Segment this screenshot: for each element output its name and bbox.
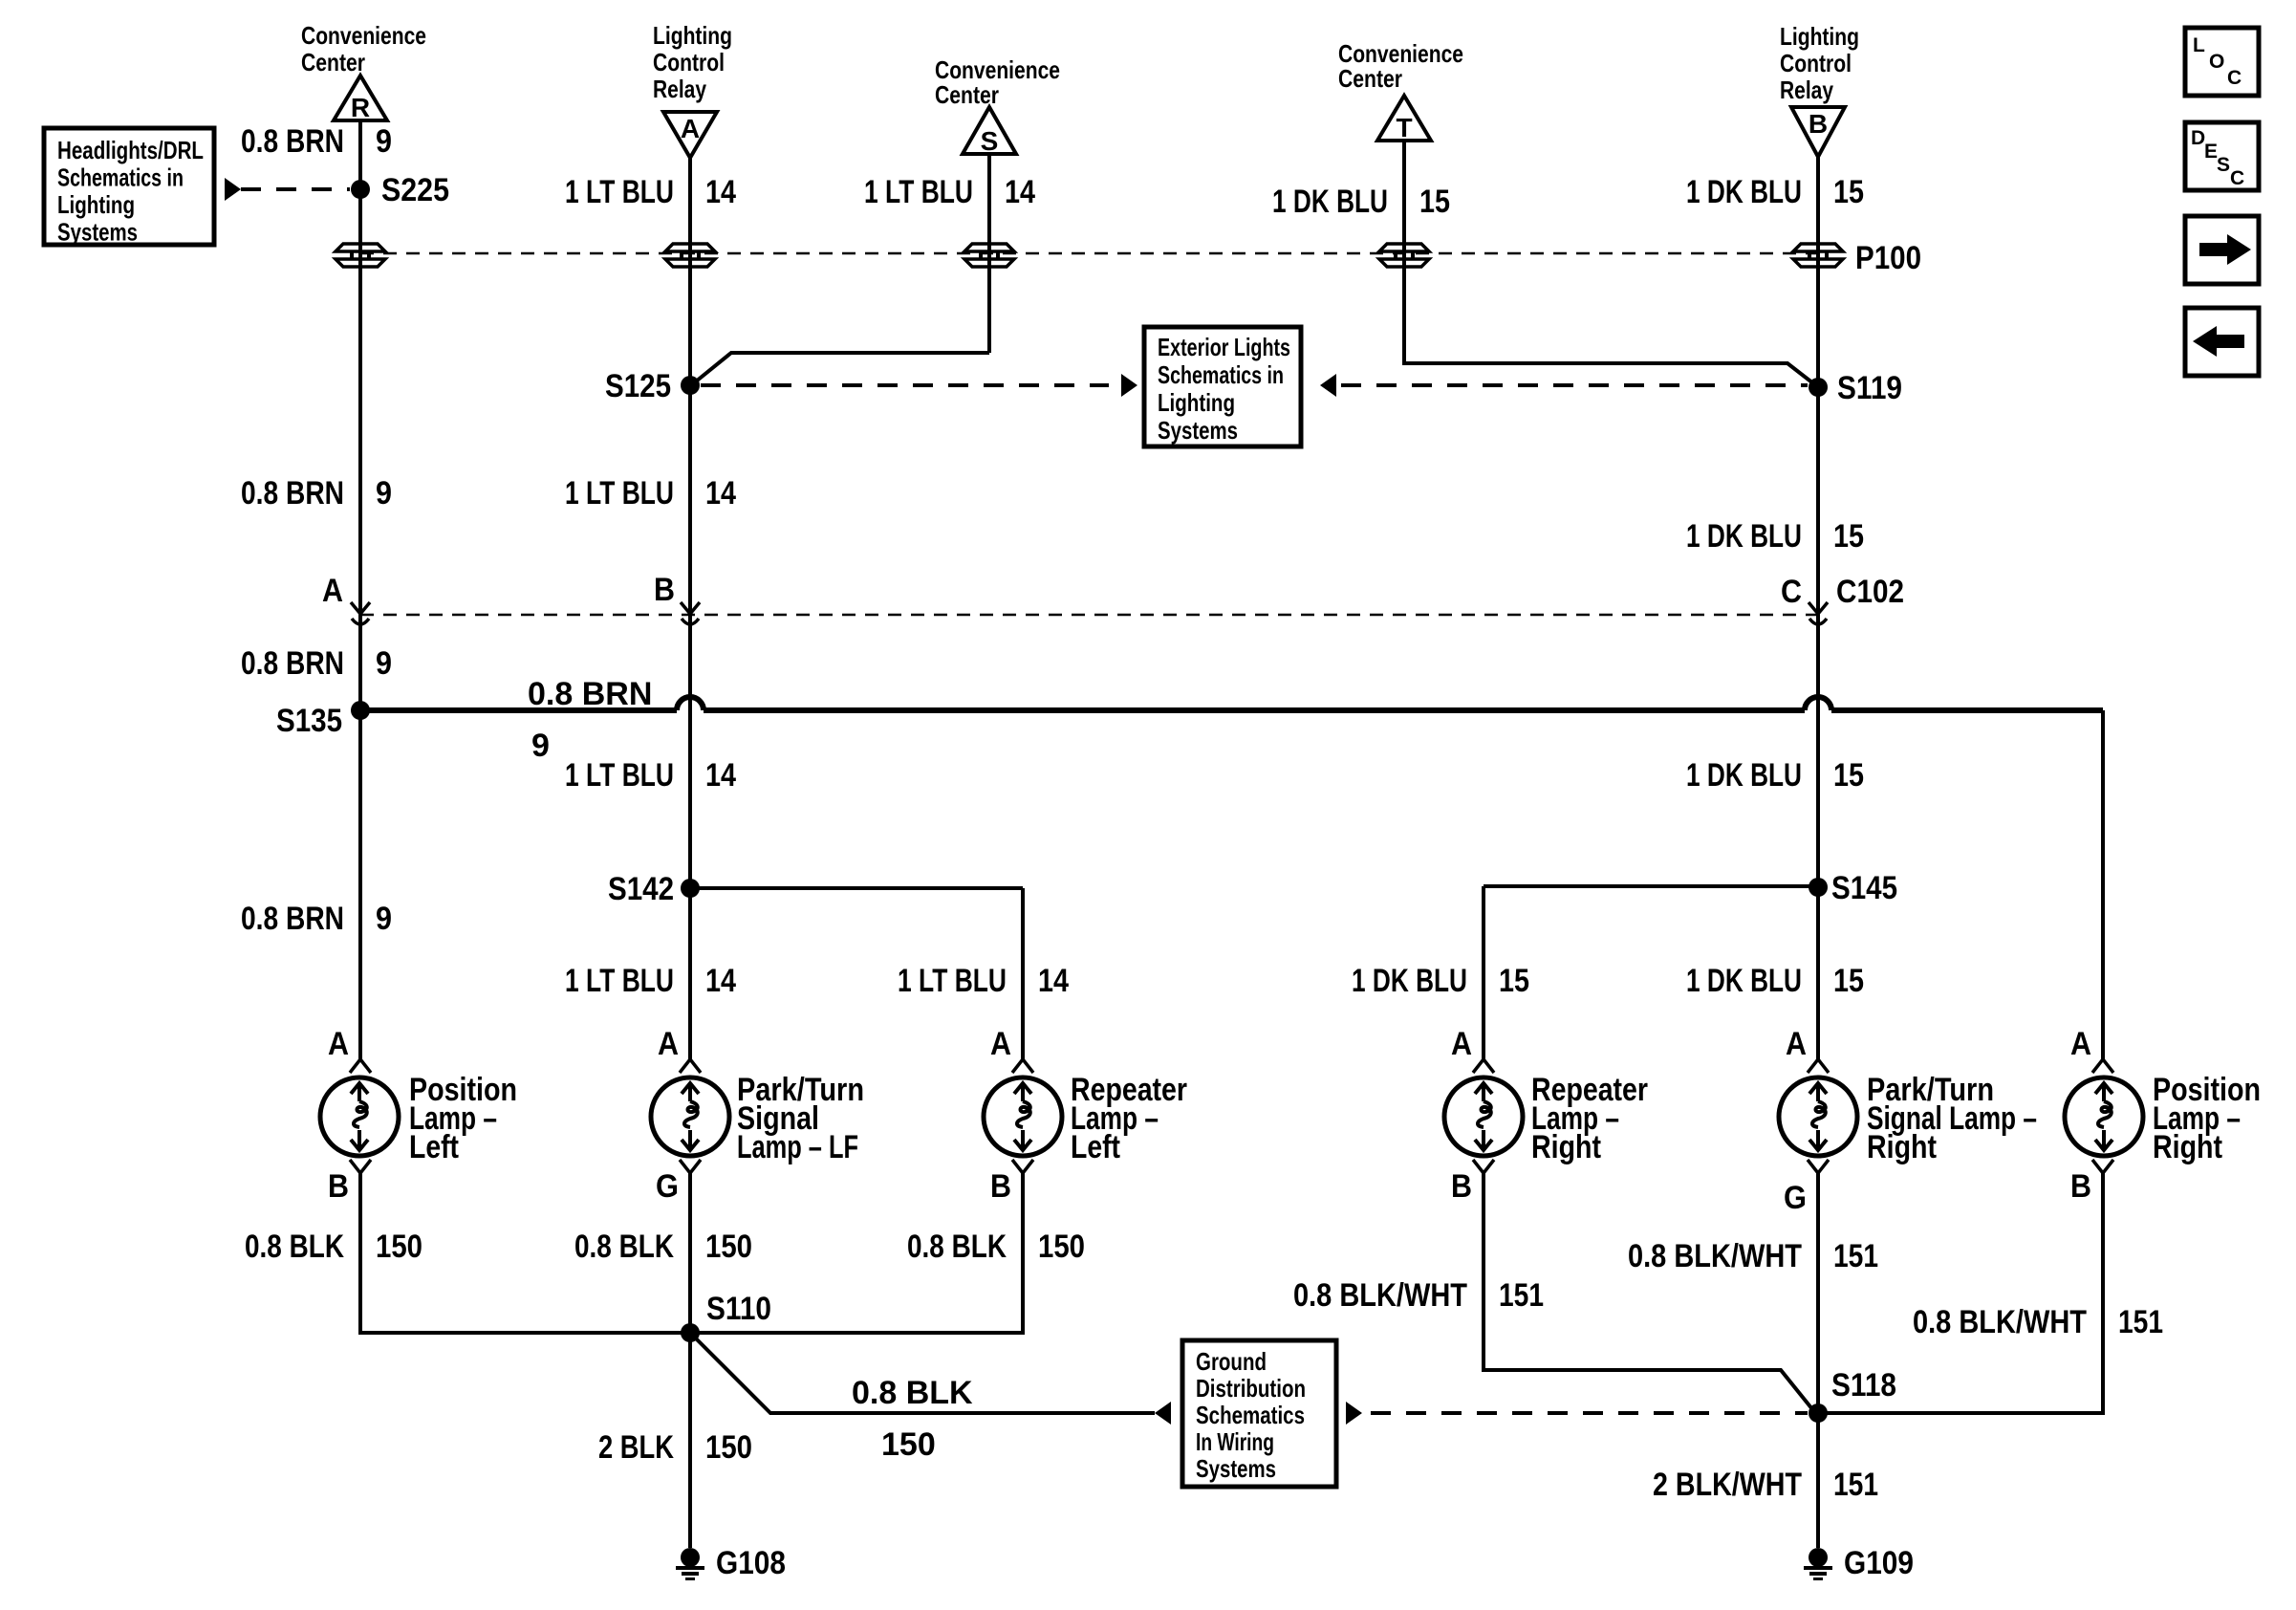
svg-text:B: B xyxy=(328,1168,349,1205)
svg-text:Center: Center xyxy=(301,48,365,76)
svg-text:Lighting: Lighting xyxy=(57,190,135,219)
svg-text:9: 9 xyxy=(376,645,392,682)
svg-text:S118: S118 xyxy=(1831,1367,1896,1403)
svg-text:P100: P100 xyxy=(1855,240,1921,276)
wire T column vertical xyxy=(1402,141,1406,365)
label Park/Turn Signal Lamp - Right xyxy=(1867,1072,2037,1165)
off-page connector triangle T (Convenience Center) xyxy=(1377,96,1431,142)
ground G109 xyxy=(1804,1548,1832,1580)
lamp Position Lamp - Left xyxy=(320,1077,399,1156)
C102 pass-through terminal C xyxy=(1809,602,1828,624)
svg-text:S: S xyxy=(981,126,999,156)
wire Repeater Right drop xyxy=(1482,886,1485,1060)
splice S118 xyxy=(1809,1403,1828,1423)
wire Position Left ground drop xyxy=(358,1173,362,1333)
lamp Position Lamp - Right xyxy=(2065,1077,2143,1156)
wire R column vertical xyxy=(358,120,362,1060)
svg-text:Distribution: Distribution xyxy=(1196,1374,1306,1403)
svg-text:0.8 BRN: 0.8 BRN xyxy=(241,901,344,937)
label Lighting Control Relay (A) xyxy=(653,21,732,103)
off-page connector triangle B (Lighting Control Relay) xyxy=(1791,107,1845,157)
svg-text:15: 15 xyxy=(1833,963,1864,999)
svg-text:C: C xyxy=(2230,167,2244,189)
svg-text:G: G xyxy=(1784,1180,1807,1216)
splice S125 xyxy=(681,376,700,395)
svg-text:1 LT BLU: 1 LT BLU xyxy=(898,963,1007,999)
svg-text:Lamp – LF: Lamp – LF xyxy=(737,1129,858,1165)
off-page connector triangle A (Lighting Control Relay) xyxy=(663,112,717,158)
svg-text:150: 150 xyxy=(881,1426,936,1463)
svg-text:0.8 BRN: 0.8 BRN xyxy=(241,645,344,682)
svg-text:150: 150 xyxy=(705,1429,752,1466)
svg-text:Relay: Relay xyxy=(1780,76,1833,104)
svg-text:O: O xyxy=(2209,51,2224,73)
svg-text:E: E xyxy=(2204,141,2218,163)
svg-text:T: T xyxy=(1396,113,1412,142)
svg-text:14: 14 xyxy=(705,757,736,794)
splice S110 xyxy=(681,1323,700,1342)
svg-text:15: 15 xyxy=(1833,174,1864,210)
svg-text:A: A xyxy=(1451,1026,1472,1062)
svg-text:1 DK BLU: 1 DK BLU xyxy=(1352,963,1467,999)
svg-text:C: C xyxy=(2227,67,2242,89)
svg-text:G108: G108 xyxy=(716,1545,786,1581)
svg-text:15: 15 xyxy=(1419,184,1450,220)
svg-text:1 LT BLU: 1 LT BLU xyxy=(565,475,674,511)
svg-text:151: 151 xyxy=(1833,1238,1878,1274)
svg-text:A: A xyxy=(681,114,700,143)
terminal chevron G Park/Turn Right xyxy=(1808,1160,1829,1173)
wire S142 branch to Repeater Left xyxy=(690,886,1023,890)
svg-text:Systems: Systems xyxy=(57,218,138,247)
label Park/Turn Signal Lamp - LF xyxy=(737,1072,864,1165)
svg-text:150: 150 xyxy=(1038,1229,1085,1265)
svg-text:1 DK BLU: 1 DK BLU xyxy=(1686,757,1802,794)
wire S column vertical xyxy=(987,154,991,353)
label Convenience Center (S) xyxy=(935,55,1060,109)
svg-text:S119: S119 xyxy=(1837,370,1902,406)
terminal chevron G Park/Turn LF xyxy=(680,1160,701,1173)
dashed wire Headlights box to S225 xyxy=(241,187,350,191)
wire Position Right drop xyxy=(2101,710,2105,1060)
dashed wire S125 to Exterior Lights box xyxy=(701,383,1109,387)
svg-text:2 BLK/WHT: 2 BLK/WHT xyxy=(1653,1467,1802,1503)
svg-text:14: 14 xyxy=(1005,174,1035,210)
svg-text:0.8 BLK: 0.8 BLK xyxy=(574,1229,674,1265)
svg-text:B: B xyxy=(654,572,675,608)
svg-text:A: A xyxy=(322,573,343,609)
svg-text:A: A xyxy=(2070,1026,2091,1062)
svg-text:0.8 BLK/WHT: 0.8 BLK/WHT xyxy=(1628,1238,1802,1274)
wire S135 bus horizontal xyxy=(360,707,677,713)
svg-text:G109: G109 xyxy=(1844,1545,1914,1581)
splice S145 xyxy=(1809,878,1828,897)
svg-text:R: R xyxy=(351,93,370,122)
terminal chevron B Repeater Left xyxy=(1012,1160,1033,1173)
svg-text:A: A xyxy=(990,1026,1011,1062)
svg-text:Control: Control xyxy=(653,48,725,76)
wire S135 bus horizontal (middle) xyxy=(704,707,1805,713)
connector P100 at B column xyxy=(1793,244,1843,267)
svg-text:G: G xyxy=(656,1168,679,1205)
svg-text:150: 150 xyxy=(376,1229,422,1265)
arrow from Headlights/DRL box xyxy=(225,178,241,201)
svg-text:0.8 BRN: 0.8 BRN xyxy=(241,123,344,160)
wire Position Right ground run to S118 xyxy=(1818,1173,2103,1413)
connector P100 at R column xyxy=(336,244,385,267)
terminal chevron B Position Right xyxy=(2092,1160,2113,1173)
label Position Lamp - Right xyxy=(2153,1072,2261,1165)
terminal chevron A Position Right xyxy=(2092,1059,2113,1073)
wire A column vertical xyxy=(688,158,692,1060)
label Repeater Lamp - Left xyxy=(1071,1072,1187,1165)
svg-text:1 LT BLU: 1 LT BLU xyxy=(565,963,674,999)
svg-text:1 DK BLU: 1 DK BLU xyxy=(1272,184,1388,220)
svg-text:B: B xyxy=(2070,1168,2091,1205)
off-page connector triangle R (Convenience Center) xyxy=(334,76,387,122)
svg-text:Systems: Systems xyxy=(1196,1454,1276,1483)
svg-text:C: C xyxy=(1781,574,1802,610)
svg-text:S110: S110 xyxy=(706,1291,771,1327)
svg-text:Headlights/DRL: Headlights/DRL xyxy=(57,136,204,164)
svg-text:9: 9 xyxy=(376,123,392,160)
wire Repeater Left drop xyxy=(1021,888,1025,1060)
svg-text:1 DK BLU: 1 DK BLU xyxy=(1686,174,1802,210)
wire S135 bus horizontal (right) xyxy=(1831,707,2103,713)
svg-text:15: 15 xyxy=(1499,963,1529,999)
svg-text:15: 15 xyxy=(1833,518,1864,555)
svg-text:In Wiring: In Wiring xyxy=(1196,1427,1274,1456)
svg-text:Control: Control xyxy=(1780,49,1852,77)
svg-text:14: 14 xyxy=(705,475,736,511)
svg-text:Schematics in: Schematics in xyxy=(57,163,184,192)
connector P100 at T column xyxy=(1379,244,1429,267)
svg-text:C102: C102 xyxy=(1836,574,1904,610)
C102 pass-through terminal B xyxy=(681,602,700,624)
ground G108 xyxy=(676,1548,704,1580)
terminal chevron A Repeater Right xyxy=(1473,1059,1494,1073)
svg-text:Left: Left xyxy=(409,1129,459,1165)
dashed bulkhead line P100 xyxy=(360,252,1818,255)
lamp Park/Turn Signal Lamp - LF xyxy=(651,1077,729,1156)
svg-text:D: D xyxy=(2191,127,2205,149)
svg-text:B: B xyxy=(1809,109,1828,139)
reference box Headlights/DRL Schematics in Lighting Systems xyxy=(44,128,214,247)
svg-text:L: L xyxy=(2193,34,2205,56)
svg-text:Right: Right xyxy=(1867,1129,1937,1165)
svg-text:Ground: Ground xyxy=(1196,1347,1267,1376)
arrow out of Ground Distribution box (left) xyxy=(1155,1402,1171,1425)
svg-text:Relay: Relay xyxy=(653,75,706,103)
svg-text:9: 9 xyxy=(531,728,550,764)
wire Position Left to S110 xyxy=(360,1327,690,1333)
svg-text:Lighting: Lighting xyxy=(1780,22,1859,51)
svg-text:14: 14 xyxy=(705,174,736,210)
svg-text:Schematics in: Schematics in xyxy=(1158,360,1284,389)
terminal chevron B Repeater Right xyxy=(1473,1160,1494,1173)
legend box LOC xyxy=(2185,28,2259,96)
svg-text:1 LT BLU: 1 LT BLU xyxy=(864,174,973,210)
svg-text:0.8 BLK: 0.8 BLK xyxy=(245,1229,344,1265)
wire S column elbow to S125 xyxy=(696,353,989,381)
terminal chevron A Park/Turn LF xyxy=(680,1059,701,1073)
label Convenience Center (T) xyxy=(1338,39,1463,93)
svg-text:151: 151 xyxy=(1499,1277,1544,1314)
terminal chevron A Park/Turn Right xyxy=(1808,1059,1829,1073)
svg-text:0.8 BLK: 0.8 BLK xyxy=(907,1229,1007,1265)
svg-text:S125: S125 xyxy=(605,368,671,404)
svg-text:0.8 BLK/WHT: 0.8 BLK/WHT xyxy=(1293,1277,1467,1314)
C102 pass-through terminal A xyxy=(351,602,370,624)
off-page connector triangle S (Convenience Center) xyxy=(963,107,1016,156)
arrow into Exterior Lights box (left) xyxy=(1121,374,1137,397)
label Convenience Center (R) xyxy=(301,21,426,76)
svg-text:A: A xyxy=(1786,1026,1807,1062)
svg-text:9: 9 xyxy=(376,901,392,937)
splice S119 xyxy=(1809,378,1828,397)
lamp Repeater Lamp - Right xyxy=(1444,1077,1523,1156)
lamp Repeater Lamp - Left xyxy=(984,1077,1062,1156)
wire B column vertical xyxy=(1816,157,1820,1060)
svg-text:150: 150 xyxy=(705,1229,752,1265)
arrow out of Ground Distribution box (right) xyxy=(1346,1402,1362,1425)
svg-text:151: 151 xyxy=(2118,1304,2163,1340)
svg-text:0.8 BLK/WHT: 0.8 BLK/WHT xyxy=(1913,1304,2087,1340)
lamp Park/Turn Signal Lamp - Right xyxy=(1779,1077,1857,1156)
label Repeater Lamp - Right xyxy=(1531,1072,1648,1165)
wire Park/Turn LF ground drop xyxy=(688,1173,692,1548)
svg-text:B: B xyxy=(1451,1168,1472,1205)
terminal chevron A Position Lamp Left xyxy=(350,1059,371,1073)
legend box previous-page arrow xyxy=(2185,308,2259,376)
svg-text:0.8 BRN: 0.8 BRN xyxy=(241,475,344,511)
wire S110 to Ground Distribution box xyxy=(695,1338,1155,1413)
svg-text:14: 14 xyxy=(1038,963,1069,999)
wire T column elbow to S119 xyxy=(1404,363,1813,383)
svg-text:Exterior Lights: Exterior Lights xyxy=(1158,333,1290,361)
svg-text:Lighting: Lighting xyxy=(1158,388,1235,417)
wire hop over B column xyxy=(1805,697,1831,710)
svg-text:14: 14 xyxy=(705,963,736,999)
wire Repeater Left to S110 xyxy=(690,1327,1023,1333)
dashed in-line connector C102 xyxy=(360,614,1818,617)
svg-text:S225: S225 xyxy=(381,172,449,208)
svg-text:Right: Right xyxy=(1531,1129,1601,1165)
terminal chevron A Repeater Left xyxy=(1012,1059,1033,1073)
wire hop over A column xyxy=(677,697,704,710)
svg-text:15: 15 xyxy=(1833,757,1864,794)
svg-text:S135: S135 xyxy=(276,703,342,739)
splice S225 xyxy=(351,180,370,199)
svg-text:Right: Right xyxy=(2153,1129,2222,1165)
wire Park/Turn Right ground drop xyxy=(1816,1173,1820,1548)
svg-text:151: 151 xyxy=(1833,1467,1878,1503)
wire Repeater Right ground run to S118 xyxy=(1484,1173,1812,1409)
splice S142 xyxy=(681,879,700,898)
dashed wire Ground Distribution box to S118 xyxy=(1371,1411,1808,1415)
svg-text:S: S xyxy=(2217,154,2230,176)
svg-text:2 BLK: 2 BLK xyxy=(598,1429,674,1466)
svg-text:1 LT BLU: 1 LT BLU xyxy=(565,174,674,210)
reference box Exterior Lights Schematics in Lighting Systems xyxy=(1144,327,1301,446)
svg-text:Systems: Systems xyxy=(1158,416,1238,445)
svg-text:1 DK BLU: 1 DK BLU xyxy=(1686,518,1802,555)
wire S145 branch to Repeater Right xyxy=(1484,884,1818,888)
svg-text:1 DK BLU: 1 DK BLU xyxy=(1686,963,1802,999)
svg-text:Left: Left xyxy=(1071,1129,1120,1165)
svg-text:Lighting: Lighting xyxy=(653,21,732,50)
legend box DESC xyxy=(2185,122,2259,190)
svg-text:Center: Center xyxy=(1338,64,1402,93)
svg-text:S145: S145 xyxy=(1831,870,1897,906)
svg-text:Convenience: Convenience xyxy=(301,21,426,50)
svg-text:B: B xyxy=(990,1168,1011,1205)
svg-text:A: A xyxy=(328,1026,349,1062)
legend box next-page arrow xyxy=(2185,216,2259,284)
connector P100 at A column xyxy=(665,244,715,267)
wire Repeater Left ground drop xyxy=(1021,1173,1025,1333)
svg-text:0.8 BRN: 0.8 BRN xyxy=(528,676,652,712)
label Position Lamp - Left xyxy=(409,1072,517,1165)
label Lighting Control Relay (B) xyxy=(1780,22,1859,104)
svg-text:A: A xyxy=(658,1026,679,1062)
dashed wire Exterior Lights box to S119 xyxy=(1341,383,1808,387)
connector P100 at S column xyxy=(964,244,1014,267)
reference box Ground Distribution Schematics In Wiring Systems xyxy=(1182,1340,1336,1487)
svg-text:1 LT BLU: 1 LT BLU xyxy=(565,757,674,794)
svg-text:Schematics: Schematics xyxy=(1196,1401,1305,1429)
arrow into Exterior Lights box (right) xyxy=(1320,374,1336,397)
svg-text:0.8 BLK: 0.8 BLK xyxy=(852,1375,973,1411)
svg-text:9: 9 xyxy=(376,475,392,511)
splice S135 xyxy=(351,701,370,720)
svg-text:S142: S142 xyxy=(608,871,674,907)
terminal chevron B Position Lamp Left xyxy=(350,1160,371,1173)
